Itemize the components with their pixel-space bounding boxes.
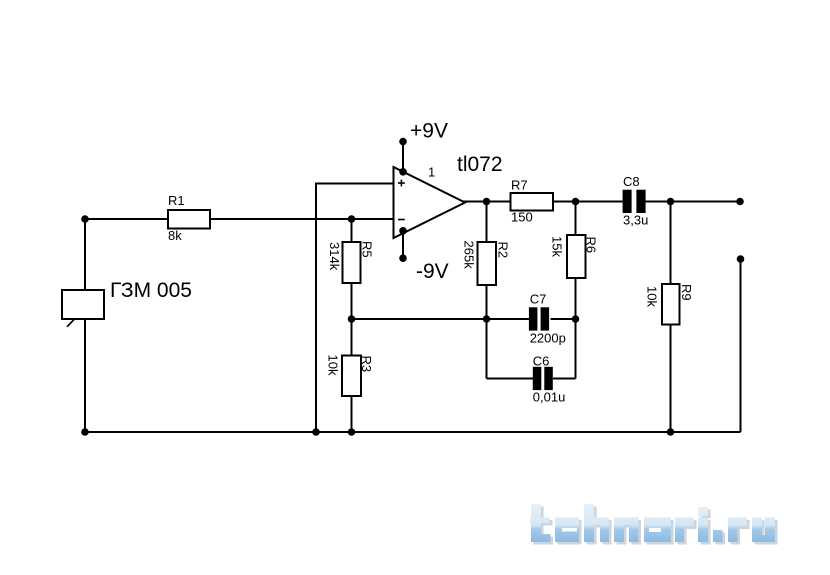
resistor R3 (342, 356, 361, 397)
node input left (81, 215, 89, 223)
wire right output return vertical (740, 259, 742, 432)
wire ground column to + input (316, 184, 394, 433)
resistor R1 (168, 210, 210, 229)
node rail left (81, 428, 89, 436)
svg-text:8k: 8k (168, 228, 182, 243)
wire cartridge column top (84, 219, 86, 291)
svg-text:R7: R7 (511, 178, 528, 193)
svg-text:1: 1 (428, 165, 435, 180)
svg-text:tl072: tl072 (457, 153, 503, 176)
cartridge stylus line (67, 319, 75, 327)
cartridge ГЗМ 005 box (62, 290, 104, 319)
svg-text:0,01u: 0,01u (533, 390, 566, 405)
svg-text:314k: 314k (327, 242, 342, 271)
resistor R9 (662, 284, 680, 325)
node rail R9 (667, 428, 675, 436)
svg-text:R6: R6 (584, 237, 599, 254)
wire +9V supply (402, 142, 404, 173)
svg-text:15k: 15k (550, 236, 565, 257)
svg-text:ГЗМ 005: ГЗМ 005 (110, 279, 192, 302)
wire R2 column (486, 202, 488, 379)
capacitor C7 plates (529, 307, 538, 330)
capacitor C6 plates (533, 367, 542, 390)
svg-text:3,3u: 3,3u (623, 213, 648, 228)
node +9V terminal (399, 138, 407, 146)
svg-text:R3: R3 (359, 356, 374, 373)
svg-text:150: 150 (511, 210, 533, 225)
svg-text:R5: R5 (360, 241, 375, 258)
wire R5 R3 column (351, 219, 353, 432)
svg-text:C6: C6 (533, 354, 550, 369)
resistor R6 (567, 235, 586, 278)
wire feedback row left of C7 (352, 318, 530, 320)
svg-text:R9: R9 (679, 284, 694, 301)
watermark tehnari.ru (530, 504, 778, 545)
wire cartridge column bottom (84, 318, 86, 432)
node rail ground column (312, 428, 320, 436)
op-amp U1 triangle (394, 167, 466, 238)
node -9V at op-amp (399, 227, 407, 235)
node output junction (483, 198, 491, 206)
svg-text:R2: R2 (496, 242, 511, 259)
wire feedback row right of C7 (551, 318, 576, 320)
node feedback row left (348, 315, 356, 323)
wire R9 column (670, 202, 672, 433)
svg-text:10k: 10k (645, 286, 660, 307)
svg-text:-9V: -9V (416, 260, 449, 283)
svg-text:C8: C8 (623, 174, 640, 189)
svg-text:+9V: +9V (410, 120, 448, 143)
wire C6 row left (487, 378, 534, 380)
capacitor C8 plates (623, 190, 632, 213)
resistor R5 (343, 242, 361, 283)
svg-text:10k: 10k (326, 355, 341, 376)
wire output row left of C8 (463, 201, 623, 203)
node output terminal top (736, 198, 744, 206)
node R7-R6 junction (572, 198, 580, 206)
node feedback row C7 right (572, 315, 580, 323)
wire output row right of C8 (646, 201, 741, 203)
svg-text:2200p: 2200p (530, 331, 566, 346)
wire C6 row right (553, 378, 576, 380)
op-amp minus input marking (398, 219, 405, 221)
wire main input row (85, 218, 394, 220)
node C8-R9 junction (667, 198, 675, 206)
resistor R2 (478, 242, 497, 285)
wire bottom ground rail (85, 431, 741, 433)
svg-text:C7: C7 (530, 292, 547, 307)
node output terminal bottom (737, 255, 745, 263)
node +9V at op-amp (399, 168, 407, 176)
resistor R7 (511, 193, 554, 211)
node -9V terminal (399, 254, 407, 262)
node rail R3 (348, 428, 356, 436)
node feedback row C7 left (483, 315, 491, 323)
svg-text:R1: R1 (168, 193, 185, 208)
wire R6 column (575, 202, 577, 379)
svg-text:265k: 265k (462, 241, 477, 270)
op-amp plus input marking (398, 180, 405, 187)
node R5 top junction (348, 215, 356, 223)
wire -9V supply (402, 231, 404, 259)
